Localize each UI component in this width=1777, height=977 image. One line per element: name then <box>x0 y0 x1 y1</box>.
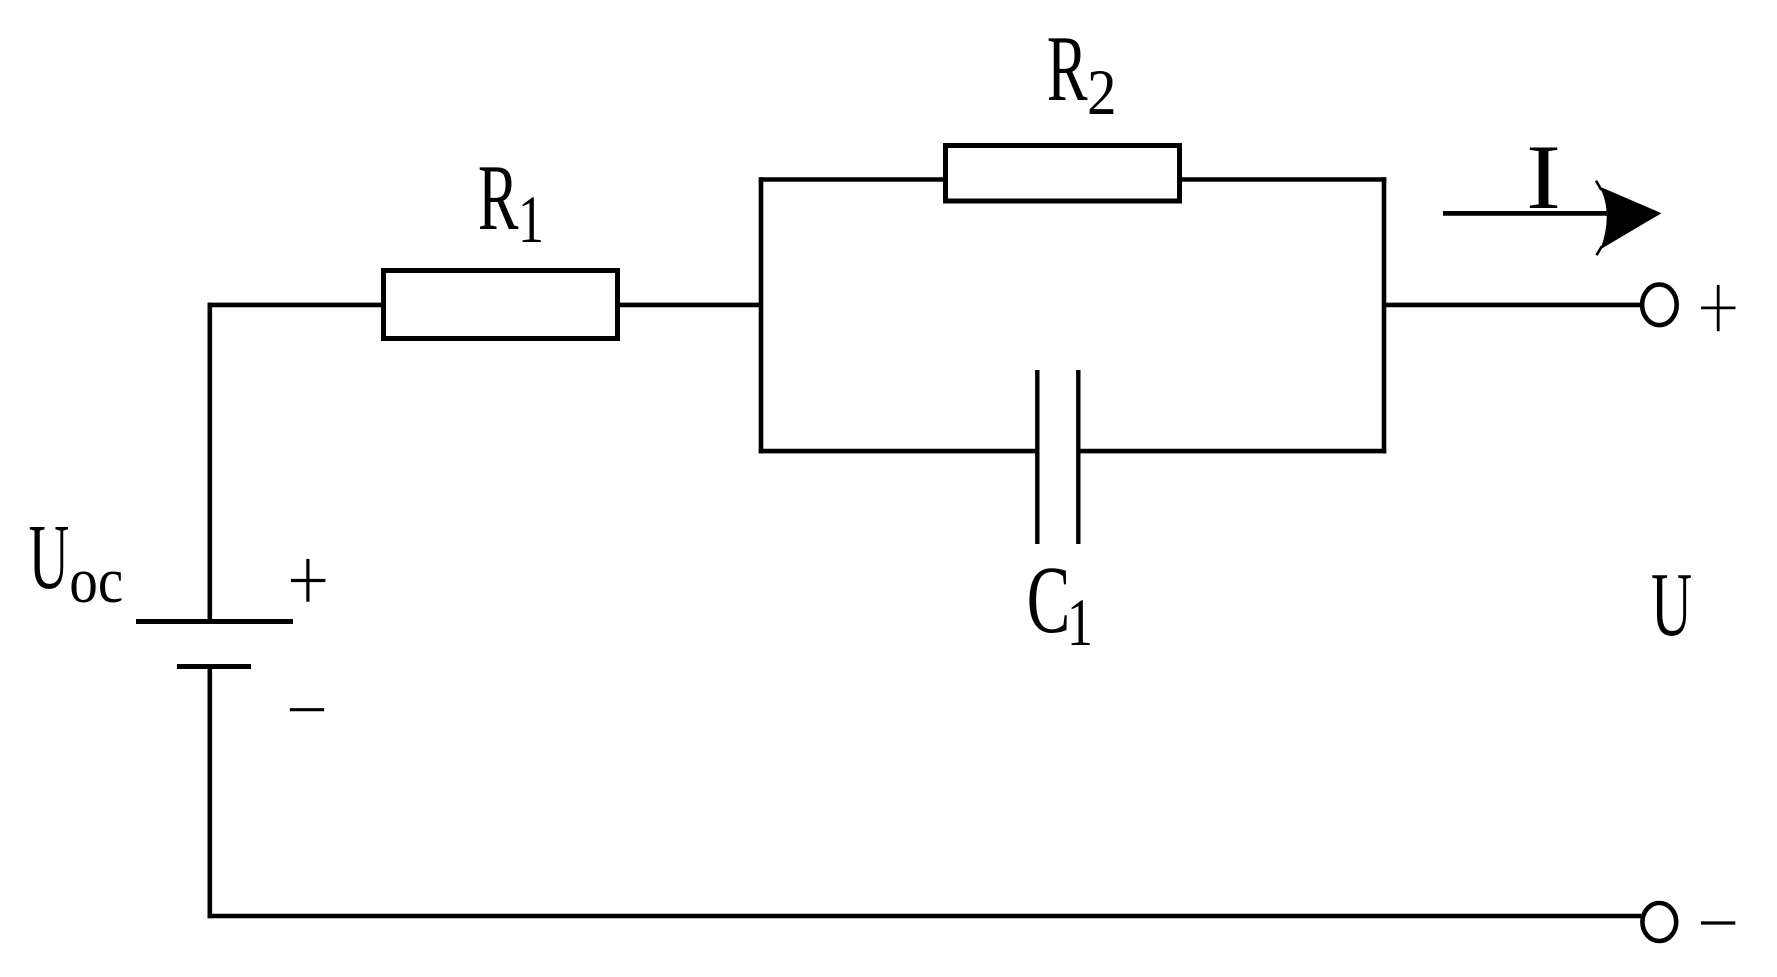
svg-text:oc: oc <box>69 545 123 617</box>
wire: top-left horizontal from source to R1 <box>208 303 383 308</box>
battery U_oc: short negative plate <box>177 664 251 669</box>
node: negative output terminal circle <box>1642 903 1676 941</box>
current arrow I: lower barb spur <box>1597 246 1603 255</box>
label: U_oc source voltage <box>29 506 124 617</box>
label R1 <box>478 146 544 258</box>
RC parallel block: left vertical wire <box>759 177 764 453</box>
RC block: top wire left segment to R2 <box>759 177 945 182</box>
label: plus sign at output <box>1701 285 1736 331</box>
capacitor C1: right plate <box>1076 370 1080 544</box>
svg-text:I: I <box>1526 127 1561 229</box>
wire: RC block to positive terminal <box>1384 303 1641 308</box>
svg-text:2: 2 <box>1087 58 1117 129</box>
svg-text:R: R <box>478 146 519 250</box>
svg-text:1: 1 <box>1067 585 1093 660</box>
RC block: top wire right segment from R2 <box>1180 177 1386 182</box>
label R2 <box>1047 17 1117 129</box>
node: positive output terminal circle <box>1642 285 1677 326</box>
wire: left vertical from battery negative plate down to bottom wire <box>208 667 213 919</box>
svg-text:U: U <box>1651 555 1692 656</box>
current arrow I: shaft <box>1443 211 1614 216</box>
wire: left vertical from top wire down to battery positive plate <box>208 303 213 622</box>
svg-text:U: U <box>29 506 69 609</box>
svg-text:C: C <box>1027 547 1071 653</box>
capacitor C1: left plate <box>1035 370 1039 544</box>
RC block: bottom wire right segment from C1 <box>1078 449 1386 454</box>
label: plus sign of battery <box>291 559 326 602</box>
current arrow I: head <box>1600 187 1662 250</box>
RC block: right vertical wire <box>1382 177 1387 453</box>
svg-text:R: R <box>1047 17 1088 121</box>
label C1 <box>1027 547 1093 661</box>
label: minus sign at output <box>1701 921 1735 924</box>
resistor R1 body <box>384 271 618 339</box>
wire: bottom horizontal to negative terminal <box>208 914 1642 919</box>
resistor R2 body <box>946 146 1180 202</box>
svg-text:1: 1 <box>518 182 544 257</box>
label: minus sign of battery <box>290 708 324 711</box>
wire: R1 to RC block <box>620 303 763 308</box>
current arrow I: upper barb spur <box>1596 181 1602 190</box>
battery U_oc: long positive plate <box>136 619 293 624</box>
RC block: bottom wire left segment to C1 <box>759 449 1037 454</box>
